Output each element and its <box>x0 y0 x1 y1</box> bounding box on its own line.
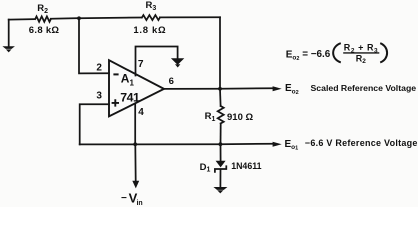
diode D1 zener bar <box>215 166 226 172</box>
svg-text:−: − <box>121 193 127 204</box>
node D junction dot (R1/D1/E_o1) <box>219 142 223 146</box>
ground (below D1) symbol <box>213 187 227 190</box>
svg-text:1.8 kΩ: 1.8 kΩ <box>133 25 166 36</box>
resistor R3 <box>142 15 160 20</box>
svg-text:910 Ω: 910 Ω <box>227 112 253 123</box>
op-amp U A1 triangle <box>109 60 164 116</box>
wire R3 to top-right corner <box>160 16 220 18</box>
ground (pin 7) arrow symbol <box>171 58 184 65</box>
svg-text:2: 2 <box>96 63 102 74</box>
wire node C to R1 <box>219 89 222 106</box>
wire pin 4 <box>134 104 136 145</box>
wire node A to R3 <box>79 17 141 20</box>
svg-text:Eo2: Eo2 <box>286 49 300 62</box>
wire E_o2 output lead <box>220 87 274 90</box>
wire D1 to ground <box>219 170 221 187</box>
svg-text:D1: D1 <box>200 162 211 174</box>
wire node A down to pin 2 <box>79 18 109 73</box>
arrowhead E_o1 <box>273 142 282 147</box>
arrowhead E_o2 <box>273 86 282 91</box>
wire R2 to node A <box>51 17 79 20</box>
svg-text:6: 6 <box>169 76 174 87</box>
diode D1 zener triangle <box>216 161 226 168</box>
wire pin 7 to ground <box>136 47 178 76</box>
svg-text:Scaled Reference Voltage: Scaled Reference Voltage <box>311 83 417 93</box>
wire output pin 6 to node C <box>164 88 220 90</box>
svg-text:Eo1: Eo1 <box>285 139 299 152</box>
wire R1 to node D <box>220 123 222 144</box>
wire E_o1 output lead <box>220 143 273 146</box>
resistor R1 <box>218 106 224 123</box>
node B junction dot (pin4 / -Vin) <box>133 142 137 146</box>
wire node D to diode D1 <box>220 144 222 161</box>
node C junction dot (output) <box>218 87 222 91</box>
op-amp minus input sign <box>113 73 118 75</box>
wire ground to R2 <box>9 18 34 21</box>
svg-text:A1: A1 <box>121 72 135 88</box>
arrowhead -Vin <box>132 181 139 189</box>
svg-text:Eo2: Eo2 <box>285 83 299 96</box>
op-amp plus input sign <box>112 99 119 106</box>
svg-text:1N4611: 1N4611 <box>231 161 261 171</box>
svg-text:R2: R2 <box>356 53 367 65</box>
equation E_o2 = -6.6 ((R2+R3)/R2) <box>286 43 387 66</box>
svg-text:Vin: Vin <box>129 190 143 206</box>
svg-text:= −6.6: = −6.6 <box>302 49 331 60</box>
svg-text:R1: R1 <box>205 111 216 123</box>
svg-text:4: 4 <box>138 107 144 118</box>
resistor R2 <box>35 16 51 21</box>
svg-text:3: 3 <box>96 91 102 102</box>
wire -Vin arrow lead <box>134 144 136 181</box>
svg-text:R2: R2 <box>37 3 48 15</box>
svg-text:7: 7 <box>138 59 144 70</box>
ground (left) symbol <box>2 46 15 49</box>
wire pin 3 <box>80 104 109 144</box>
svg-text:R3: R3 <box>146 0 157 12</box>
wire bottom bus (feedback to node D) <box>80 143 221 145</box>
svg-text:−6.6 V Reference Voltage: −6.6 V Reference Voltage <box>305 138 418 148</box>
wire right vertical to output node C <box>219 17 221 89</box>
svg-text:6.8 kΩ: 6.8 kΩ <box>29 25 60 36</box>
node A junction dot <box>77 16 81 20</box>
svg-text:741: 741 <box>120 91 140 105</box>
ground (left, input common) - riser wire <box>8 20 10 47</box>
